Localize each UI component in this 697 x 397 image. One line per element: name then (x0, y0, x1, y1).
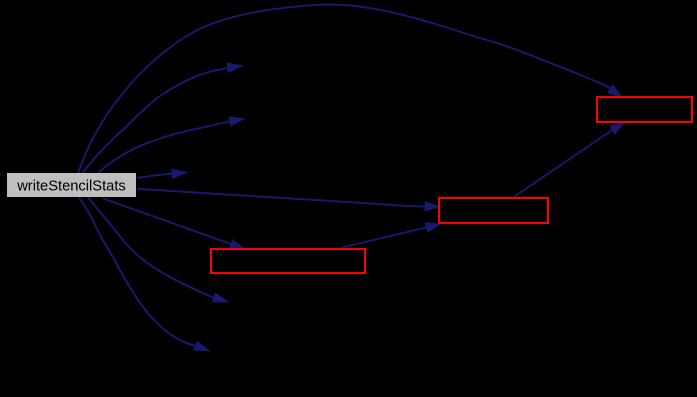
svg-text:writeStencilStats: writeStencilStats (16, 178, 126, 194)
